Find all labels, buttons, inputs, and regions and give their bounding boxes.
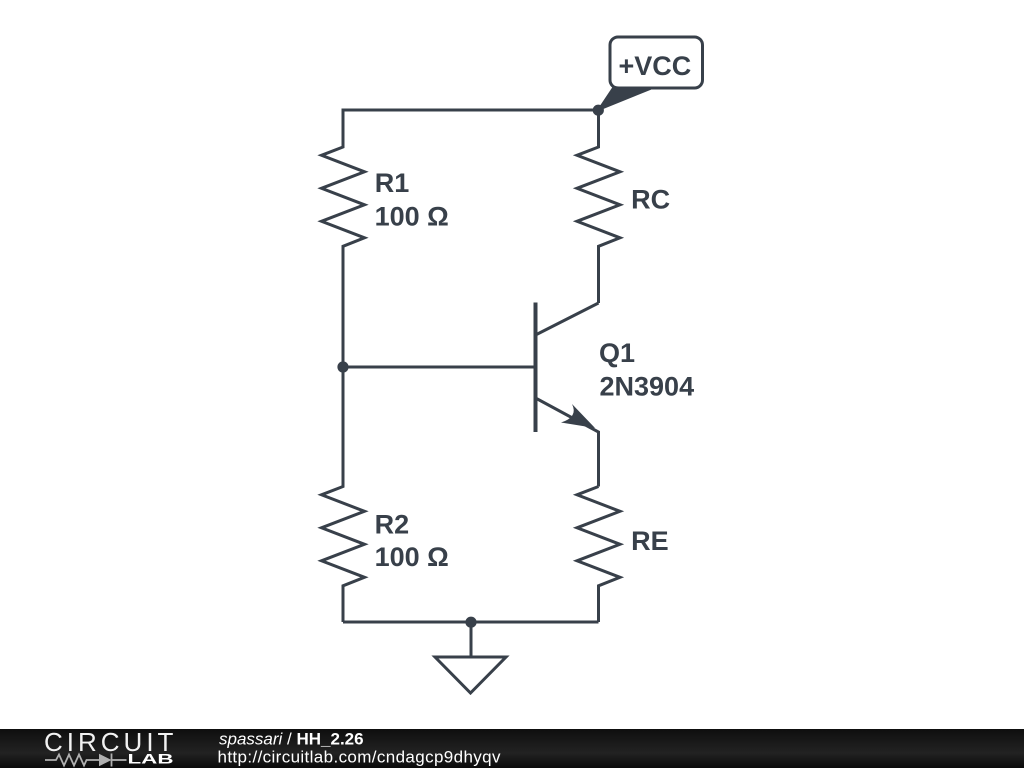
svg-text:Q1: Q1 [599,338,635,368]
svg-text:+VCC: +VCC [619,51,692,81]
svg-text:100 Ω: 100 Ω [375,542,449,572]
svg-text:spassari / HH_2.26: spassari / HH_2.26 [219,730,364,749]
svg-text:LAB: LAB [128,751,174,767]
svg-text:R2: R2 [375,509,410,539]
svg-text:RC: RC [631,185,670,215]
svg-text:100 Ω: 100 Ω [375,201,449,231]
svg-text:2N3904: 2N3904 [600,372,695,402]
svg-text:RE: RE [631,526,669,556]
svg-text:http://circuitlab.com/cndagcp9: http://circuitlab.com/cndagcp9dhyqv [218,748,502,767]
svg-text:R1: R1 [375,168,410,198]
